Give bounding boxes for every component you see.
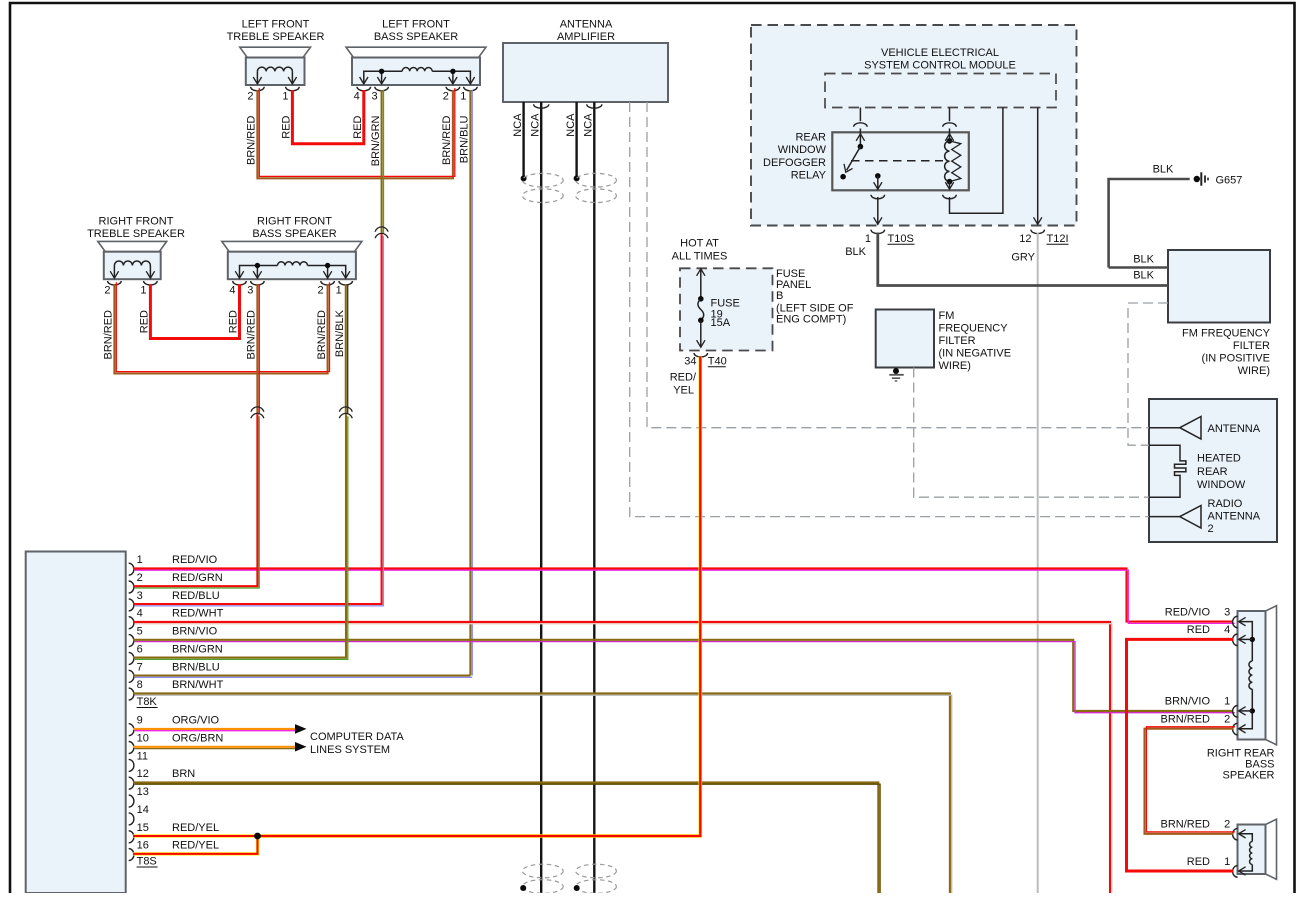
radio pin 15 connector [129, 831, 134, 843]
svg-text:RED: RED [1187, 856, 1210, 868]
svg-text:SPEAKER: SPEAKER [1223, 770, 1275, 782]
svg-text:LEFT FRONT: LEFT FRONT [242, 18, 310, 30]
svg-text:5: 5 [137, 626, 143, 638]
antenna symbol [1149, 427, 1180, 429]
svg-text:VEHICLE ELECTRICAL: VEHICLE ELECTRICAL [881, 47, 999, 59]
svg-text:RED/BLU: RED/BLU [172, 590, 220, 602]
wire BRN/BLU radio pin7 horizontal [133, 676, 472, 678]
svg-text:TREBLE SPEAKER: TREBLE SPEAKER [227, 31, 325, 43]
dashed wire FM filter negative to heated rear window [914, 368, 1149, 498]
svg-text:WINDOW: WINDOW [1197, 479, 1246, 491]
svg-text:4: 4 [354, 91, 360, 103]
vehicle electrical system control module box [751, 25, 1077, 226]
svg-text:TREBLE SPEAKER: TREBLE SPEAKER [87, 228, 185, 240]
radio pin 6 connector [129, 652, 134, 664]
wire BRN/GRN radio pin6 up to inline connector [133, 414, 348, 659]
wire BRN/GRN LF bass pin3 down to inline connector [382, 90, 384, 234]
svg-text:BRN/RED: BRN/RED [1160, 819, 1210, 831]
radio pin 11 connector [129, 759, 134, 771]
radio antenna 2 symbol [1149, 516, 1180, 518]
fuse element [697, 269, 705, 276]
svg-text:T8K: T8K [137, 696, 158, 708]
svg-text:WINDOW: WINDOW [778, 144, 827, 156]
rear window defogger relay box [832, 132, 969, 190]
relay switch arm [847, 147, 861, 171]
relay coil [945, 141, 950, 182]
coax shield symbol top left [522, 173, 563, 187]
svg-text:REAR: REAR [1197, 466, 1228, 478]
radio pin 9 connector [129, 724, 134, 736]
svg-text:FILTER: FILTER [939, 335, 976, 347]
radio pin 14 connector [129, 813, 134, 825]
svg-text:BLK: BLK [845, 246, 866, 258]
svg-text:RED/GRN: RED/GRN [172, 572, 223, 584]
svg-text:FM FREQUENCY: FM FREQUENCY [1182, 328, 1271, 340]
relay coil resistor [950, 141, 961, 182]
svg-text:BRN/GRN: BRN/GRN [370, 115, 382, 166]
radio pin 3 connector [129, 599, 134, 611]
wire RED/GRN radio pin2 up to inline connector [133, 414, 259, 588]
wire relay coil return loop [950, 108, 1003, 214]
wire RED/BLU radio pin3 up to inline connector [133, 234, 383, 606]
svg-text:RED: RED [139, 310, 151, 333]
connector at antenna amplifier [534, 104, 549, 108]
svg-text:G657: G657 [1216, 175, 1243, 187]
svg-text:RED/YEL: RED/YEL [172, 822, 219, 834]
svg-text:LINES SYSTEM: LINES SYSTEM [310, 744, 390, 756]
svg-text:T8S: T8S [137, 856, 157, 868]
svg-text:BRN/WHT: BRN/WHT [172, 679, 224, 691]
svg-text:1: 1 [1224, 696, 1230, 708]
radio pin 2 connector [129, 581, 134, 593]
wire RED RF treble pin1 to RF bass pin4 [150, 284, 239, 338]
svg-text:RED: RED [352, 115, 364, 138]
svg-text:BRN/GRN: BRN/GRN [172, 643, 223, 655]
svg-text:12: 12 [1019, 233, 1031, 245]
arrow computer data line 1 [295, 724, 307, 734]
ground symbol G657 [1200, 172, 1202, 185]
svg-text:NCA: NCA [565, 113, 577, 137]
svg-text:2: 2 [104, 285, 110, 297]
svg-text:1: 1 [336, 285, 342, 297]
ground dot FM filter negative [893, 368, 899, 374]
svg-text:BASS SPEAKER: BASS SPEAKER [374, 31, 458, 43]
radio pin 7 connector [129, 670, 134, 682]
svg-text:AMPLIFIER: AMPLIFIER [557, 31, 615, 43]
svg-text:1: 1 [140, 285, 146, 297]
svg-text:ANTENNA: ANTENNA [1208, 423, 1261, 435]
radio pin 10 connector [129, 742, 134, 754]
svg-text:1: 1 [865, 233, 871, 245]
relay switch pivot [858, 144, 864, 150]
junction shield drain bottom left [520, 885, 526, 891]
heated rear window element [1149, 445, 1186, 497]
wire BRN/RED RF treble pin2 to RF bass pin2 [114, 282, 329, 373]
wire RED/VIO radio pin1 to right rear bass speaker pin3 [133, 568, 1235, 623]
svg-text:BLK: BLK [1133, 253, 1154, 265]
inline connector break on RED/BLU wire [375, 227, 388, 232]
ground symbol FM filter negative [889, 374, 903, 376]
svg-text:NCA: NCA [512, 113, 524, 137]
wire RED right rear bass pin4 to treble pin1 [1127, 639, 1234, 871]
wire NCA shielded lead (right pair) [593, 102, 595, 893]
junction shield drain right [574, 175, 580, 181]
svg-text:BRN/BLK: BRN/BLK [334, 309, 346, 357]
FM frequency filter (in negative wire) box [876, 310, 934, 368]
svg-text:BRN/RED: BRN/RED [1160, 714, 1210, 726]
svg-text:ORG/VIO: ORG/VIO [172, 715, 220, 727]
svg-text:14: 14 [137, 804, 149, 816]
ground G657 dot [1194, 176, 1200, 182]
svg-text:16: 16 [137, 840, 149, 852]
wire GRY from T12I down [1037, 233, 1039, 894]
radio pin 8 connector [129, 688, 134, 700]
junction shield drain left [521, 175, 527, 181]
dashed wire antenna amplifier to radio antenna 2 [630, 102, 1149, 517]
svg-text:ALL TIMES: ALL TIMES [672, 251, 728, 263]
left front bass speaker [346, 47, 486, 57]
wire RED/YEL radio pin15 [133, 834, 258, 837]
right rear bass speaker [1266, 606, 1277, 745]
svg-text:WIRE): WIRE) [1238, 365, 1270, 377]
svg-text:11: 11 [137, 750, 148, 762]
svg-text:BLK: BLK [1133, 270, 1154, 282]
svg-text:BRN/RED: BRN/RED [441, 115, 453, 165]
FM frequency filter (in positive wire) box [1168, 250, 1270, 323]
wire BLK filter to G657 branch [1109, 266, 1168, 269]
wire NCA antenna amp to shield (right pair) [575, 102, 577, 178]
wire BRN/VIO radio pin5 to right rear bass speaker pin1 [133, 640, 1235, 713]
svg-text:RIGHT FRONT: RIGHT FRONT [99, 215, 174, 227]
svg-text:ORG/BRN: ORG/BRN [172, 733, 223, 745]
right rear treble speaker [1266, 819, 1277, 879]
wire ORG/VIO radio pin9 to data line arrow [133, 729, 297, 731]
svg-text:BASS SPEAKER: BASS SPEAKER [252, 228, 336, 240]
svg-text:T12I: T12I [1047, 233, 1069, 245]
VECM inner connector block [825, 74, 1056, 108]
relay linkage dashed [851, 160, 943, 162]
svg-text:1: 1 [137, 554, 143, 566]
radio pin 4 connector [129, 617, 134, 629]
wire RED LF treble pin1 to LF bass pin4 [292, 90, 363, 144]
svg-text:1: 1 [282, 91, 288, 103]
svg-text:RED/: RED/ [670, 372, 697, 384]
svg-text:8: 8 [137, 679, 143, 691]
svg-text:B: B [776, 290, 783, 302]
svg-text:NCA: NCA [530, 113, 542, 137]
svg-text:(IN NEGATIVE: (IN NEGATIVE [939, 348, 1012, 360]
radio pin 16 connector [129, 849, 134, 861]
junction shield drain bottom right [574, 885, 580, 891]
svg-text:BRN/BLU: BRN/BLU [172, 661, 220, 673]
svg-text:RED/VIO: RED/VIO [1165, 606, 1211, 618]
svg-text:3: 3 [247, 285, 253, 297]
svg-text:FILTER: FILTER [1233, 340, 1270, 352]
svg-text:COMPUTER DATA: COMPUTER DATA [310, 731, 404, 743]
svg-text:RED: RED [281, 115, 293, 138]
wire RED/WHT radio pin4 off page [133, 622, 1112, 895]
coax shield symbol bottom right [576, 864, 617, 878]
wire BLK to ground G657 [1109, 179, 1190, 268]
svg-text:13: 13 [137, 786, 149, 798]
wire BRN/RED RF bass pin3 down to inline connector [257, 284, 259, 414]
fuse 19 15A element [698, 299, 704, 320]
svg-text:4: 4 [1224, 624, 1230, 636]
coil right rear bass speaker [1249, 661, 1252, 689]
dashed wire FM filter positive to heated rear window [1128, 303, 1168, 445]
wire ORG/BRN radio pin10 to data line arrow [133, 747, 297, 749]
svg-text:9: 9 [137, 715, 143, 727]
svg-text:2: 2 [1224, 819, 1230, 831]
svg-text:2: 2 [137, 572, 143, 584]
svg-text:RED: RED [228, 310, 240, 333]
wire VECM to T12I [1037, 108, 1039, 225]
svg-text:NCA: NCA [583, 113, 595, 137]
heated rear window box [1149, 399, 1277, 542]
radio pin 5 connector [129, 635, 134, 647]
svg-text:15A: 15A [711, 317, 731, 329]
svg-text:WIRE): WIRE) [939, 360, 971, 372]
coax shield symbol top right [576, 173, 617, 187]
svg-text:(IN POSITIVE: (IN POSITIVE [1202, 353, 1270, 365]
svg-text:ANTENNA: ANTENNA [1208, 511, 1261, 523]
svg-text:YEL: YEL [673, 385, 694, 397]
svg-text:SYSTEM CONTROL MODULE: SYSTEM CONTROL MODULE [864, 60, 1016, 72]
svg-text:3: 3 [1224, 606, 1230, 618]
svg-text:4: 4 [229, 285, 235, 297]
wire BRN/RED right rear bass pin2 to treble pin2 [1145, 727, 1235, 834]
svg-text:15: 15 [137, 822, 149, 834]
radio pin 1 connector [129, 563, 134, 575]
svg-text:FREQUENCY: FREQUENCY [939, 323, 1009, 335]
svg-text:RELAY: RELAY [791, 170, 827, 182]
svg-text:RED/VIO: RED/VIO [172, 554, 218, 566]
arrow computer data line 2 [295, 742, 307, 752]
wire VECM to relay switch [859, 108, 861, 122]
svg-text:BRN/RED: BRN/RED [316, 310, 328, 360]
radio connector block [26, 552, 126, 894]
svg-text:3: 3 [371, 91, 377, 103]
wire BRN/WHT radio pin8 off page [133, 693, 952, 894]
svg-text:12: 12 [137, 768, 149, 780]
svg-text:1: 1 [460, 91, 466, 103]
relay coil top node [947, 138, 953, 144]
svg-text:7: 7 [137, 661, 143, 673]
relay switch contact [840, 174, 846, 180]
svg-text:DEFOGGER: DEFOGGER [763, 157, 826, 169]
svg-text:BRN/VIO: BRN/VIO [172, 626, 218, 638]
wire BRN radio pin12 off page [133, 782, 880, 894]
wire VECM to relay coil [949, 108, 951, 122]
right front treble speaker [98, 241, 167, 251]
wire relay common to pin 1 [877, 176, 879, 189]
inline connector break on BRN/GRN wire [339, 407, 352, 412]
svg-text:REAR: REAR [795, 132, 826, 144]
coil right rear treble speaker [1250, 842, 1253, 865]
svg-text:2: 2 [443, 91, 449, 103]
dashed wire antenna amplifier to antenna [647, 102, 1149, 428]
svg-text:RIGHT FRONT: RIGHT FRONT [257, 215, 332, 227]
svg-text:BRN: BRN [172, 768, 195, 780]
wire NCA antenna amp to shield (left pair) [522, 102, 524, 178]
svg-text:ENG COMPT): ENG COMPT) [776, 314, 846, 326]
svg-text:RED/YEL: RED/YEL [172, 840, 219, 852]
svg-text:4: 4 [137, 608, 143, 620]
wire NCA shielded lead (left pair) [540, 102, 542, 893]
svg-text:10: 10 [137, 733, 149, 745]
svg-text:2: 2 [1208, 523, 1214, 535]
relay coil bottom node [947, 179, 953, 185]
radio pin 13 connector [129, 795, 134, 807]
svg-text:LEFT FRONT: LEFT FRONT [382, 18, 450, 30]
connector at antenna amplifier [587, 104, 602, 108]
wire BRN/BLU LF bass pin1 down to radio pin7 row [470, 90, 472, 676]
svg-text:BRN/RED: BRN/RED [246, 115, 258, 165]
svg-text:BLK: BLK [1153, 164, 1174, 176]
svg-text:6: 6 [137, 643, 143, 655]
right front bass speaker [222, 241, 362, 251]
wire RED/YEL fuse T40 to junction [258, 357, 701, 836]
svg-text:T40: T40 [708, 356, 727, 368]
antenna amplifier box [503, 43, 668, 102]
svg-text:RED: RED [1187, 624, 1210, 636]
left front treble speaker [240, 47, 311, 57]
svg-text:FM: FM [939, 310, 955, 322]
fuse panel B box [680, 268, 773, 350]
wire BRN/RED LF treble pin2 to LF bass pin2 [257, 88, 454, 178]
wire BRN/BLK RF bass pin1 down to inline connector [346, 284, 348, 414]
svg-text:BRN/BLU: BRN/BLU [459, 115, 471, 163]
svg-text:ANTENNA: ANTENNA [560, 18, 613, 30]
junction RED/YEL [254, 833, 261, 840]
wire BLK from T10S to FM frequency filter [878, 233, 1168, 286]
svg-text:34: 34 [684, 356, 696, 368]
radio pin 12 connector [129, 777, 134, 789]
coax shield symbol bottom left [522, 864, 563, 878]
svg-text:RED/WHT: RED/WHT [172, 608, 224, 620]
inline connector break on RED/GRN wire [251, 407, 264, 412]
svg-text:BRN/VIO: BRN/VIO [1165, 696, 1211, 708]
connector arc [854, 123, 868, 127]
svg-text:HOT AT: HOT AT [680, 237, 719, 249]
svg-text:3: 3 [137, 590, 143, 602]
svg-text:2: 2 [317, 285, 323, 297]
svg-text:T10S: T10S [888, 233, 914, 245]
wire RED/YEL radio pin16 [133, 836, 258, 854]
svg-text:BRN/RED: BRN/RED [103, 310, 115, 360]
svg-text:2: 2 [1224, 714, 1230, 726]
svg-text:HEATED: HEATED [1197, 453, 1241, 465]
svg-text:BRN/RED: BRN/RED [246, 310, 258, 360]
svg-text:2: 2 [247, 91, 253, 103]
relay common contact [875, 173, 881, 179]
svg-text:RADIO: RADIO [1208, 498, 1243, 510]
svg-text:GRY: GRY [1011, 251, 1035, 263]
svg-text:1: 1 [1224, 856, 1230, 868]
